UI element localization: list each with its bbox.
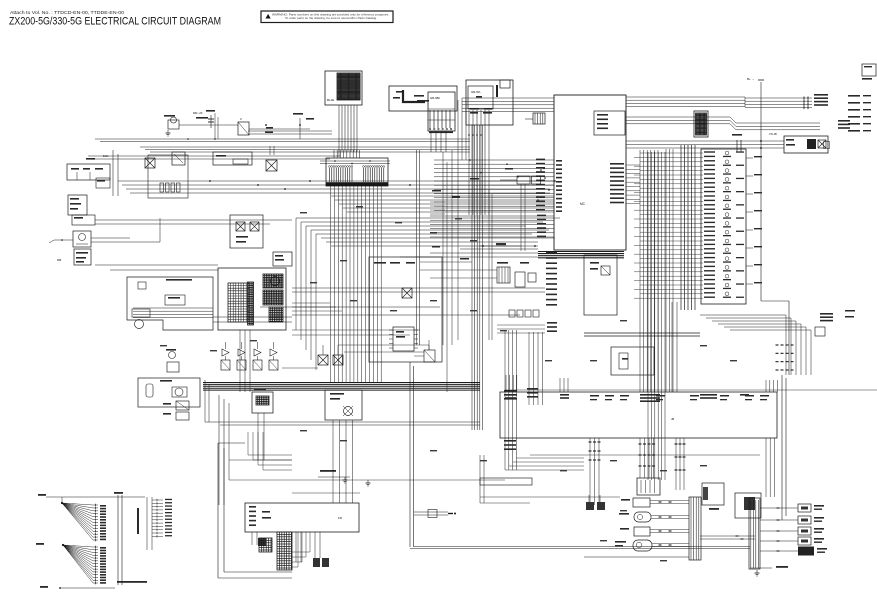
relay small pair below [176,401,189,410]
connector strip S-bus [689,497,701,560]
svg-text:WARNING: Parts numbers on this: WARNING: Parts numbers on this drawing a… [272,13,389,16]
svg-text:ZX200-5G/330-5G ELECTRICAL CIR: ZX200-5G/330-5G ELECTRICAL CIRCUIT DIAGR… [9,16,221,28]
wire bundle below CN-B [330,186,332,383]
svg-text:B+ →: B+ → [747,77,755,81]
wire bundle below box c [675,438,677,490]
wire [299,118,301,139]
relay R-m [601,266,610,275]
fuse row [160,183,164,192]
wire bundle nested corners right [700,314,786,316]
monitor cluster [218,268,286,330]
gauge circle [135,320,144,329]
small box row [509,310,515,317]
connector strip bank [749,498,760,569]
vr box [702,483,724,505]
connector ticks right bundle [776,344,779,346]
vertical bundle harness down [647,152,649,480]
junction box left of harness [584,255,617,315]
tiny label scatter [300,212,307,213]
wire harness fan 1 [62,503,93,505]
connector block CN-MC1 [694,111,708,137]
wire bus center continuation [460,248,538,250]
wire stubs harness mid [430,201,445,203]
harness connector box right [701,149,746,304]
connector dark pair [313,558,320,567]
wire corners right of TB [248,454,292,456]
wire pu-cb label [320,470,336,472]
box above sensors [480,478,532,485]
wire bundle into box top b [559,378,561,392]
wire rows lower right center [497,324,545,326]
svg-text:484-5BK: 484-5BK [430,96,440,100]
svg-text:484-5PL: 484-5PL [471,90,481,94]
wire verticals center-right mesh [442,152,444,345]
sensor round S1 [634,512,651,522]
wire double bus to sensors [414,544,689,546]
label text fan [117,581,147,583]
wire [338,150,340,157]
right edge labels mid [845,310,855,312]
connector pin rows right [640,152,703,154]
wire h y557 [584,556,689,558]
wire v480 [479,455,481,503]
wire bus monitor left [95,264,218,266]
wire fan bottom [60,587,115,589]
battery box [72,215,95,225]
wire bundle from CN-A [338,105,340,152]
big center box [369,257,442,362]
wire bus upper [95,138,470,140]
dark wire band bottom [203,382,480,384]
wire left edge verticals [204,380,206,422]
wire long h y390 right [505,389,877,391]
corner box top right [862,64,876,76]
relay box FL-1 [389,86,457,111]
vertical bundle center tall [471,125,473,430]
connector block CN-A [325,71,362,105]
mc pin labels lower [546,252,557,254]
wire top bus step [461,98,463,160]
connector block CN-B [326,158,388,186]
wire bundle CN-B stubs [333,150,335,158]
hatch block bottom [277,532,292,570]
dark bus band center [538,251,624,253]
wire [179,124,238,126]
connector block bottom b [637,478,660,495]
wire stubs below flasher [251,532,253,545]
wire bundle into box top c [639,150,641,392]
component d5 [424,350,435,362]
component under switch [96,178,110,188]
wire bundle CN-B to MC [331,195,554,197]
wire bundle in stepped box [133,307,213,309]
svg-text:MC: MC [580,202,586,206]
relay cluster above monitor [230,215,263,248]
svg-text:To order parts on the drawing,: To order parts on the drawing, be sure t… [285,17,377,20]
connector base bar CN-B [326,182,388,186]
outer box around relays [148,155,188,198]
sensor pressure Pa [633,498,650,507]
capacitor C1 [210,115,212,128]
pin comb CN-B1 [329,168,331,182]
wire h 460 left [229,459,292,461]
relay bank box [735,493,761,518]
wire bus nest top [296,217,560,219]
led element [169,352,176,359]
relay MXXU [168,120,179,129]
wire bundle right step2 [626,116,730,118]
controller MC [554,95,626,250]
flasher box [245,503,359,532]
node dots [265,124,267,126]
fuse link box [145,158,155,168]
sensor S2 [634,527,650,536]
wire double bus right [584,332,700,334]
wire bundle below box b [639,438,641,478]
power dist box PL-3 [213,152,252,165]
junction dots on bus [209,180,211,182]
terminal column 2 [152,499,163,501]
wire nest verticals left [295,218,297,330]
warning note box [261,11,393,23]
wire bundle v1 down [504,330,506,470]
wire long horizontal y423 [205,421,480,423]
connector marks mid [736,140,738,152]
sensor wire ticks [659,501,662,503]
wire bundle into box top a [505,375,507,392]
diode row D1-D4 [222,349,229,356]
wire bundle fb down [430,131,432,152]
svg-text:MR--20: MR--20 [193,111,203,115]
ground sym [367,480,369,483]
pin comb CN-B2 [363,168,365,182]
connector pair small [517,176,530,184]
relay X2 [266,160,277,171]
vertical bundle harness thin [665,149,667,392]
fuse box FB-1 [428,92,455,131]
bus through CN-B [320,160,390,162]
ic block Q1 [393,327,414,351]
wire corners bottom left nest [292,551,310,553]
svg-text:Attach to Vol. No. : TTDCD-EN-: Attach to Vol. No. : TTDCD-EN-00, TTDDE-… [10,10,124,15]
relay X3 [402,288,412,298]
svg-text:BLJE: BLJE [327,98,334,102]
wire long bottom link [229,479,505,481]
pin label column right of MC [610,163,624,165]
wire right edge verticals [781,375,783,520]
wire harness fan 2 [63,545,93,547]
svg-text:JB: JB [671,417,674,421]
wire from monitor down [239,330,241,392]
wire bundle MC right top [626,96,745,98]
wire bus main horizontal [118,180,554,182]
box small right [815,327,825,336]
wire bundle v2 [528,332,530,405]
wire bundle fuse down [468,110,470,215]
sensor round S3 [633,540,652,551]
relay box KR-2 [466,80,513,125]
wire link stepped to sol [213,316,292,318]
wire bundle MC to harness [626,164,640,166]
wire bank bottom [750,567,772,569]
relay C2 [238,122,249,135]
connector dark pair below box [586,502,594,510]
label rows v1 [504,440,516,442]
connector CN-S3 [533,113,545,124]
label marks scatter center [432,190,441,192]
wire battery feed [54,239,73,241]
wire verticals下 [218,395,220,505]
right edge end labels [848,95,860,97]
wire bundle MC lower-left feed [430,215,554,217]
wire bus mid h [292,287,545,289]
svg-text:C: C [240,117,242,121]
wire sol streams [332,420,334,503]
labels top far right [862,78,872,80]
wire bundle MC left feed [434,159,554,161]
svg-text:CN-1B: CN-1B [769,132,777,136]
fuse symbols top right [800,97,812,99]
connector TB [252,392,273,413]
wire verticals center-left [416,150,418,345]
stepped control box [127,277,213,330]
vertical bundle harness dark [680,145,682,310]
junction dots center bundle [540,169,542,171]
wire verticals mid [671,302,673,392]
solenoid box SOL [325,390,362,420]
wire bundle into box top d [765,380,767,392]
wire pair down from cluster [520,184,522,251]
wire corner nest left-mid [292,302,330,304]
pump control box [138,378,200,407]
box lower mid right [611,347,654,375]
wire bundle below box a [589,438,591,505]
wire from battery right [95,219,292,221]
wire bundle MC upper feed [462,97,554,99]
plug connector mid [414,511,448,513]
harness stubs right [746,157,753,159]
wide box top pin labels extra [590,395,599,397]
wire long h y455 right [530,454,760,456]
wire main feed [248,130,332,132]
relay bank outputs [760,507,798,509]
wire vertical pair down center [409,362,411,547]
connector small above monitor [273,252,292,266]
wire bundle below box d [765,438,767,497]
component cluster right of center [497,267,510,283]
connector CN-L2 [68,195,87,215]
wire horizontals center-right mesh [420,261,472,263]
pin labels wide box top [505,394,516,396]
resistor link [480,245,538,247]
junction dots CN-B [334,160,336,162]
junction wide box [500,392,777,438]
outer boundary lines bottom left [217,443,219,578]
wire bundle left buses [112,150,114,196]
wire drop links [428,345,430,350]
switch SW-L [67,164,110,180]
wire sensor area left [480,502,530,504]
svg-text:MB: MB [57,258,61,262]
relay K1 [500,80,510,88]
label LB [266,127,273,129]
wire links diode row [344,351,424,353]
relay pair right of diode row [318,355,328,365]
wire bundle to CN-1B [626,140,784,142]
wire bus to relay bank [700,535,755,537]
wire fan verticals [117,495,119,585]
